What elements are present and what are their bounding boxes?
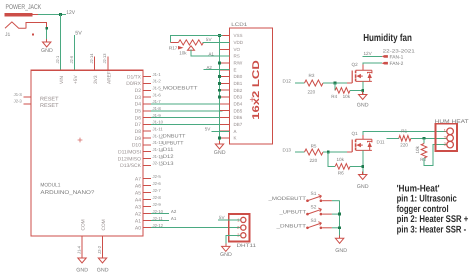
svg-text:10k: 10k	[343, 94, 351, 99]
svg-text:J1-9: J1-9	[153, 113, 162, 118]
svg-text:RESET: RESET	[40, 103, 59, 109]
svg-text:D12: D12	[283, 78, 292, 83]
pin LCD VSS	[220, 35, 230, 37]
wire D11 to R1	[387, 137, 399, 139]
svg-text:D1/TX: D1/TX	[127, 74, 142, 80]
svg-text:J1: J1	[5, 32, 11, 38]
ground GND (LCD)	[219, 141, 221, 144]
svg-text:K: K	[234, 136, 237, 141]
pin A5	[143, 192, 151, 194]
svg-text:R17: R17	[169, 45, 178, 50]
svg-text:22-23-2021: 22-23-2021	[383, 48, 416, 53]
node junction LCD bus DB1	[218, 82, 221, 85]
pin D12/MISO	[143, 158, 151, 160]
wire Q2 drain to FAN-2	[363, 63, 382, 65]
svg-text:J1-3: J1-3	[14, 92, 23, 97]
pin COM 2 wire to ground	[102, 236, 104, 258]
pin 3 DHT11	[241, 233, 246, 238]
svg-text:R6: R6	[338, 171, 344, 176]
pin D1/TX	[143, 76, 151, 78]
svg-text:COM: COM	[80, 219, 86, 230]
svg-text:J2-13: J2-13	[102, 53, 107, 64]
ground GND (Q2)	[362, 92, 364, 95]
svg-text:_DNBUTT: _DNBUTT	[158, 134, 185, 140]
wire GND bus at LCD	[219, 36, 221, 144]
pin D13/SCK	[143, 164, 151, 166]
node junction LCD bus K	[218, 137, 221, 140]
svg-text:DB4: DB4	[234, 102, 243, 107]
svg-text:A0: A0	[135, 225, 141, 231]
svg-text:_DNBUTT: _DNBUTT	[275, 223, 306, 229]
pin LCD DB3	[220, 96, 230, 98]
svg-text:16x2 LCD: 16x2 LCD	[251, 60, 262, 120]
svg-text:J2-14: J2-14	[89, 53, 94, 64]
wire D5 to LCD	[151, 110, 223, 112]
pin A4	[143, 199, 151, 201]
pin LCD R/W	[220, 62, 230, 64]
svg-text:D12/MISO: D12/MISO	[118, 156, 141, 162]
resistor R1 220	[399, 136, 411, 142]
svg-text:A5: A5	[135, 190, 141, 196]
svg-text:DB3: DB3	[234, 95, 243, 100]
node junction LCD bus VSS	[218, 34, 221, 37]
resistor R2 10k	[421, 144, 427, 159]
svg-text:S3: S3	[311, 218, 317, 224]
wire R3 to Q2 gate	[323, 82, 351, 84]
wire D7 to LCD	[151, 123, 223, 125]
wire DHT11 pin3 to ground	[226, 235, 241, 246]
svg-text:POWER_JACK: POWER_JACK	[6, 4, 42, 11]
svg-text:10k: 10k	[179, 51, 187, 56]
node junction jack/12V	[59, 13, 62, 16]
wire pot to VDD 5V	[203, 41, 230, 43]
wire D13 to R5	[295, 151, 305, 153]
pin LCD DB7	[220, 123, 230, 125]
wire wiper to RS	[191, 49, 230, 56]
wire Q1 drain to HUM HEAT pin1	[363, 131, 447, 135]
svg-text:A6: A6	[135, 183, 141, 189]
pin D7	[143, 123, 151, 125]
wire D4 to LCD	[151, 103, 223, 105]
svg-text:VO: VO	[234, 47, 241, 52]
svg-text:GND: GND	[335, 248, 347, 254]
wire A2 to LCD E	[204, 69, 230, 71]
pin 1 HUM HEAT	[447, 128, 454, 135]
svg-text:GND: GND	[76, 268, 88, 274]
svg-text:COM: COM	[101, 219, 107, 230]
svg-text:R4: R4	[331, 94, 337, 99]
pin D5	[143, 110, 151, 112]
svg-text:A: A	[234, 129, 237, 134]
pin D3	[143, 96, 151, 98]
svg-text:J2-3: J2-3	[14, 99, 23, 104]
pin LCD DB0	[220, 76, 230, 78]
pin A2	[143, 213, 151, 215]
svg-text:J1-11: J1-11	[153, 126, 164, 131]
svg-text:D10: D10	[132, 143, 141, 149]
svg-text:DB0: DB0	[234, 74, 243, 79]
svg-text:D13: D13	[283, 147, 292, 152]
pin A3	[143, 206, 151, 208]
svg-text:Humidity fan: Humidity fan	[363, 33, 412, 44]
wire A2	[151, 213, 169, 215]
svg-text:5V: 5V	[219, 215, 226, 220]
wire R4 to source	[350, 89, 363, 91]
svg-text:GND: GND	[97, 268, 109, 274]
svg-text:RESET: RESET	[40, 96, 59, 102]
svg-text:DHT11: DHT11	[237, 243, 257, 249]
pin Q2 drain stub	[362, 65, 364, 71]
wire gate junction down to R6	[328, 152, 335, 166]
wire 5V to DHT11 pin1	[218, 219, 241, 221]
svg-text:Q1: Q1	[352, 131, 359, 136]
pin D4	[143, 103, 151, 105]
svg-text:D7: D7	[135, 122, 142, 128]
pin D11/MOSI	[143, 151, 151, 153]
wire 12V to FAN-1	[363, 55, 382, 57]
node junction R1/R2	[423, 137, 426, 140]
node junction LCD bus DB0	[218, 75, 221, 78]
wire Q1 source to ground	[362, 150, 364, 174]
resistor R6 10k	[335, 164, 350, 170]
svg-text:DB6: DB6	[234, 115, 243, 120]
svg-text:DB7: DB7	[234, 122, 243, 127]
pin Q1 drain stub	[362, 135, 364, 140]
node junction LCD bus DB3	[218, 96, 221, 99]
wire pot top to VSS	[171, 36, 223, 43]
svg-text:5V: 5V	[75, 31, 82, 37]
node junction LCD bus DB2	[218, 89, 221, 92]
resistor R3 220	[305, 80, 324, 86]
ground GND (DHT11)	[225, 244, 227, 247]
svg-text:J1-8: J1-8	[153, 106, 162, 111]
node junction source/R4	[361, 89, 364, 92]
svg-text:LCD1: LCD1	[231, 22, 247, 28]
net flag FAN-2	[382, 62, 388, 65]
svg-text:D3: D3	[135, 95, 142, 101]
pin LCD DB6	[220, 117, 230, 119]
svg-text:5V: 5V	[206, 37, 213, 42]
node junction S2 bus	[338, 213, 341, 216]
pin LCD K	[220, 137, 230, 139]
wire gate to R4	[334, 83, 336, 90]
svg-text:5V: 5V	[205, 127, 212, 132]
transistor Q1	[347, 131, 372, 152]
svg-text:_UPBUTT: _UPBUTT	[278, 210, 306, 216]
svg-text:A1: A1	[135, 218, 141, 224]
transistor Q2	[347, 62, 372, 83]
svg-text:J1-10: J1-10	[153, 120, 164, 125]
svg-text:pin 3: Heater SSR -: pin 3: Heater SSR -	[397, 224, 467, 235]
pin LCD RS	[220, 55, 230, 57]
wire D6 to LCD	[151, 117, 223, 119]
svg-text:R2: R2	[420, 157, 426, 162]
node junction source/R6	[361, 165, 364, 168]
pin D9	[143, 137, 151, 139]
net flag FAN-1	[382, 55, 388, 58]
pin 3 HUM HEAT	[447, 141, 454, 148]
switch S2 _UPBUTT	[278, 205, 332, 216]
svg-text:E: E	[234, 67, 237, 72]
svg-text:VDD: VDD	[234, 40, 244, 45]
node junction gate/R6	[327, 151, 330, 154]
svg-text:J1-4: J1-4	[77, 245, 82, 254]
svg-text:J2-8: J2-8	[153, 195, 162, 200]
power jack J1	[5, 4, 47, 38]
svg-text:S2: S2	[311, 205, 317, 211]
svg-text:RS: RS	[234, 54, 240, 59]
svg-text:220: 220	[310, 158, 318, 163]
svg-text:GND: GND	[357, 103, 369, 109]
svg-text:A1: A1	[171, 216, 177, 221]
svg-text:GND: GND	[41, 48, 53, 54]
switch S1 _MODEBUTT	[267, 191, 332, 202]
svg-text:DB1: DB1	[234, 81, 243, 86]
svg-text:D11: D11	[377, 139, 386, 144]
wire 12V from jack	[38, 14, 66, 16]
svg-text:A4: A4	[135, 197, 141, 203]
pin D10	[143, 144, 151, 146]
pin D6	[143, 117, 151, 119]
svg-text:ARDUINO_NANO?: ARDUINO_NANO?	[40, 190, 94, 196]
node origin mark module	[78, 138, 83, 143]
svg-text:D8: D8	[135, 129, 142, 135]
svg-text:D2: D2	[135, 88, 142, 94]
pin LCD VDD	[220, 41, 230, 43]
svg-text:S1: S1	[311, 191, 317, 197]
resistor R4 10k	[335, 88, 350, 94]
svg-text:DB2: DB2	[234, 88, 243, 93]
svg-text:J2-6: J2-6	[69, 55, 74, 64]
wire R5 to Q1 gate	[323, 151, 351, 153]
wire jack sleeve to ground	[46, 28, 48, 42]
pin 2 HUM HEAT	[447, 135, 454, 142]
node junction at jack sleeve	[45, 27, 48, 30]
trimmer R17 10k	[171, 41, 179, 43]
svg-text:J2-12: J2-12	[153, 223, 164, 228]
svg-text:DB5: DB5	[234, 108, 243, 113]
wire A1	[151, 220, 169, 222]
pin 3V3 stub	[94, 56, 96, 70]
wire D12 to R3	[295, 82, 305, 84]
svg-text:A3: A3	[135, 204, 141, 210]
svg-text:12V: 12V	[364, 51, 373, 56]
svg-text:J2-10: J2-10	[153, 209, 164, 214]
pin LCD DB5	[220, 110, 230, 112]
wire switch ground bus	[339, 201, 341, 239]
svg-text:220: 220	[308, 89, 316, 94]
svg-text:12V: 12V	[66, 10, 75, 16]
wire S2 to bus	[332, 213, 340, 215]
pin 1 DHT11	[241, 217, 246, 222]
pin AREF stub	[107, 56, 109, 70]
svg-text:D0/RX: D0/RX	[126, 81, 141, 87]
wire S3 to bus	[332, 227, 340, 229]
svg-text:VSS: VSS	[234, 33, 243, 38]
svg-text:FAN-1: FAN-1	[390, 54, 404, 60]
svg-text:+5V: +5V	[73, 75, 79, 84]
svg-text:A7: A7	[135, 176, 141, 182]
svg-text:A2: A2	[135, 211, 141, 217]
node junction gate/R4	[334, 82, 337, 85]
svg-text:J2-2: J2-2	[97, 245, 102, 254]
wire 12V to VIN	[60, 15, 62, 71]
svg-text:GND: GND	[214, 150, 226, 156]
svg-text:A1: A1	[209, 51, 215, 56]
svg-text:_D13: _D13	[158, 161, 173, 167]
connector DHT11	[229, 214, 250, 242]
wire Q2 source to ground	[362, 81, 364, 94]
node junction S3 bus	[338, 226, 341, 229]
pin RESET 1	[24, 96, 32, 98]
wire A0 to DHT11 pin 2	[151, 227, 241, 229]
node origin mark LCD	[250, 97, 254, 101]
svg-text:D11/MOSI: D11/MOSI	[118, 149, 141, 155]
svg-text:J1-1: J1-1	[153, 72, 162, 77]
svg-text:10k: 10k	[337, 157, 345, 162]
wire 5V to LCD A	[212, 130, 230, 132]
svg-text:_D11: _D11	[158, 147, 173, 153]
svg-text:J2-9: J2-9	[153, 202, 162, 207]
pin A6	[143, 185, 151, 187]
svg-text:D5: D5	[135, 109, 142, 115]
pin LCD A	[220, 130, 230, 132]
pin LCD DB2	[220, 89, 230, 91]
svg-text:GND: GND	[220, 252, 232, 258]
svg-text:220: 220	[400, 143, 408, 148]
svg-text:Q2: Q2	[352, 62, 359, 67]
wire R1 to HUM HEAT pin2	[411, 137, 447, 139]
wire junction to R2	[423, 138, 425, 143]
ground GND (switches)	[339, 236, 341, 239]
svg-text:J1-7: J1-7	[153, 99, 162, 104]
svg-text:R1: R1	[401, 129, 407, 134]
svg-text:GND: GND	[357, 184, 369, 190]
svg-text:J2-1: J2-1	[55, 55, 60, 64]
ground GND (COM 1)	[81, 255, 83, 258]
pin LCD DB4	[220, 103, 230, 105]
pin A7	[143, 178, 151, 180]
svg-text:_MODEBUTT: _MODEBUTT	[267, 196, 306, 202]
svg-text:FAN-2: FAN-2	[390, 61, 404, 67]
pin COM 1 wire to ground	[81, 236, 83, 258]
pin A0	[143, 227, 151, 229]
svg-text:J2-7: J2-7	[153, 188, 162, 193]
pin LCD DB1	[220, 82, 230, 84]
pin LCD VO	[220, 48, 230, 50]
svg-text:J1-2: J1-2	[153, 79, 162, 84]
wire 5V to +5V pin	[74, 35, 76, 70]
node junction LCD bus R/W	[218, 62, 221, 65]
svg-text:D4: D4	[135, 102, 142, 108]
svg-text:R3: R3	[309, 73, 315, 78]
ground GND (power jack)	[46, 39, 48, 42]
pin RESET 2	[24, 103, 32, 105]
pin D0/RX	[143, 82, 151, 84]
svg-text:10k: 10k	[415, 145, 420, 153]
switch S3 _DNBUTT	[275, 218, 332, 229]
resistor R5 220	[305, 149, 324, 155]
svg-text:_D12: _D12	[158, 154, 173, 160]
svg-text:J1-6: J1-6	[153, 92, 162, 97]
svg-text:A2: A2	[171, 209, 177, 214]
pin 2 DHT11	[241, 225, 246, 230]
wire S1 to bus	[332, 200, 340, 202]
svg-text:D6: D6	[135, 115, 142, 121]
pin LCD E	[220, 69, 230, 71]
pin D2	[143, 89, 151, 91]
svg-text:R5: R5	[311, 144, 317, 149]
svg-text:R/W: R/W	[234, 61, 244, 66]
pin D8	[143, 130, 151, 132]
wire R6 to source	[350, 165, 363, 167]
ground GND (Q1)	[362, 172, 364, 175]
wire R2 bottom to HUM HEAT pin3	[424, 145, 447, 166]
svg-text:J2-6: J2-6	[153, 181, 162, 186]
svg-text:VIN: VIN	[59, 75, 65, 84]
ground GND (COM 2)	[102, 255, 104, 258]
svg-text:D9: D9	[135, 136, 142, 142]
svg-text:J2-5: J2-5	[153, 174, 162, 179]
pin A1	[143, 220, 151, 222]
svg-text:_UPBUTT: _UPBUTT	[158, 140, 183, 146]
svg-text:3V3: 3V3	[93, 75, 99, 84]
svg-text:J2-11: J2-11	[153, 216, 164, 221]
svg-text:D13/SCK: D13/SCK	[120, 163, 142, 169]
svg-text:A2: A2	[207, 65, 213, 70]
svg-text:_MODEBUTT: _MODEBUTT	[158, 86, 197, 92]
svg-text:AREF: AREF	[106, 71, 112, 84]
svg-text:MODUL1: MODUL1	[40, 182, 60, 188]
module MODUL1 ARDUINO_NANO box	[31, 70, 143, 236]
